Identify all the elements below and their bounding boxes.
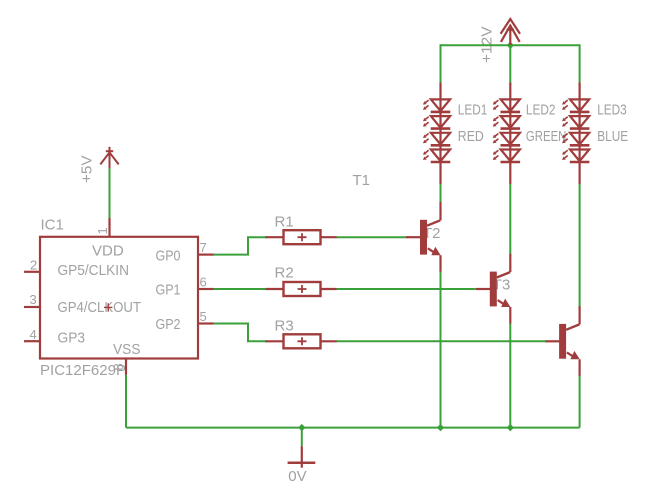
junction ground rail at 0V bbox=[298, 424, 305, 431]
LED1 chips bbox=[423, 99, 450, 162]
wire +5V to pin1 VDD bbox=[109, 168, 111, 218]
svg-text:LED2: LED2 bbox=[526, 101, 556, 118]
transistor T1 bbox=[406, 202, 441, 272]
wire LED1 cathode to T1 collector bbox=[440, 184, 442, 202]
wire rail to LED1 anode bbox=[440, 44, 442, 82]
svg-text:+5V: +5V bbox=[79, 156, 96, 184]
svg-text:R3: R3 bbox=[275, 317, 294, 334]
svg-text:GP5/CLKIN: GP5/CLKIN bbox=[58, 262, 130, 279]
pin 8 stub bbox=[125, 359, 127, 375]
pin 7 stub bbox=[198, 254, 214, 256]
pin 2 stub bbox=[24, 271, 40, 273]
ground symbol 0V bbox=[288, 446, 316, 468]
pin 5 stub bbox=[198, 322, 214, 324]
svg-text:IC1: IC1 bbox=[41, 216, 64, 233]
wire T1 emitter to ground rail bbox=[440, 272, 442, 428]
svg-text:LED3: LED3 bbox=[597, 101, 627, 118]
svg-text:5: 5 bbox=[200, 309, 207, 324]
pin 3 stub bbox=[24, 306, 40, 308]
wire ground rail bbox=[126, 427, 580, 429]
resistor R3 bbox=[266, 334, 337, 348]
svg-text:GP1: GP1 bbox=[156, 282, 181, 299]
LED2 chips bbox=[493, 99, 520, 162]
svg-text:GP2: GP2 bbox=[156, 316, 181, 333]
svg-text:4: 4 bbox=[30, 327, 37, 342]
resistor R2 bbox=[266, 282, 337, 296]
svg-text:R1: R1 bbox=[275, 213, 294, 230]
svg-text:BLUE: BLUE bbox=[597, 128, 628, 145]
svg-text:VDD: VDD bbox=[92, 243, 124, 260]
svg-text:GP4/CLKOUT: GP4/CLKOUT bbox=[58, 299, 142, 316]
wire pin6 GP1 to R2 bbox=[214, 288, 268, 290]
LED2 GREEN lead bbox=[509, 83, 511, 185]
wire R1 to T1 base bbox=[336, 236, 406, 238]
svg-text:GP3: GP3 bbox=[58, 329, 86, 346]
IC IC1 PIC12F629P body bbox=[24, 218, 214, 375]
junction ground rail at T1 emitter bbox=[437, 424, 444, 431]
origin cross bbox=[104, 303, 112, 311]
wire rail to LED3 anode bbox=[579, 44, 581, 82]
wire rail to LED2 anode bbox=[509, 45, 511, 82]
svg-text:3: 3 bbox=[30, 292, 37, 307]
wire +12V top rail bbox=[441, 44, 580, 46]
svg-text:1: 1 bbox=[95, 227, 110, 234]
wire pin8 VSS down bbox=[125, 375, 127, 428]
wire LED2 cathode to T2 collector bbox=[509, 184, 511, 254]
wire pin7 GP0 to R1 bbox=[214, 237, 268, 254]
wire pin5 GP2 to R3 bbox=[214, 324, 268, 342]
pin 1 stub bbox=[108, 218, 110, 237]
supply symbol +5V bbox=[100, 147, 118, 168]
wire LED3 cathode to T3 collector bbox=[579, 184, 581, 307]
supply symbol +12V bbox=[501, 19, 520, 45]
resistor R1 bbox=[266, 230, 337, 244]
junction ground rail at T2 emitter bbox=[507, 424, 514, 431]
svg-text:VSS: VSS bbox=[113, 341, 141, 358]
transistor T2 bbox=[476, 254, 511, 324]
svg-text:6: 6 bbox=[200, 275, 207, 290]
wire stub to 0V symbol bbox=[301, 428, 303, 447]
svg-text:0V: 0V bbox=[288, 468, 306, 485]
svg-text:RED: RED bbox=[458, 128, 484, 145]
svg-text:2: 2 bbox=[30, 257, 37, 272]
svg-text:8: 8 bbox=[111, 363, 126, 370]
wire R3 to T3 base bbox=[336, 340, 545, 342]
wire T3 emitter to ground rail bbox=[579, 376, 581, 428]
svg-text:GP0: GP0 bbox=[156, 247, 181, 264]
LED3 chips bbox=[562, 99, 589, 162]
transistor T3 bbox=[545, 306, 580, 376]
LED3 BLUE lead bbox=[578, 83, 580, 185]
junction +12V rail bbox=[507, 42, 514, 49]
pin 4 stub bbox=[24, 340, 40, 342]
wire T2 emitter to ground rail bbox=[509, 323, 511, 427]
LED1 RED (4 chips) lead bbox=[439, 83, 441, 185]
wire R2 to T2 base bbox=[336, 288, 476, 290]
svg-text:T1: T1 bbox=[353, 172, 371, 189]
svg-text:R2: R2 bbox=[275, 264, 294, 281]
pin 6 stub bbox=[198, 288, 214, 290]
svg-text:GREEN: GREEN bbox=[526, 128, 567, 145]
svg-text:7: 7 bbox=[200, 240, 207, 255]
svg-text:LED1: LED1 bbox=[458, 101, 488, 118]
